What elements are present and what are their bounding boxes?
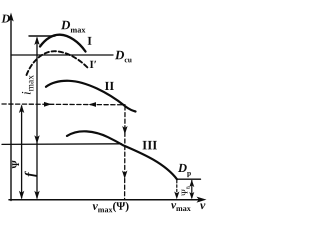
y-axis bbox=[10, 17, 12, 201]
dimension line B (i_max / f) bbox=[36, 38, 38, 198]
svg-text:III: III bbox=[142, 137, 157, 152]
x-axis bbox=[9, 199, 201, 201]
x-axis arrowhead bbox=[197, 197, 207, 203]
left arrow on dashed line bbox=[89, 102, 97, 107]
svg-text:v: v bbox=[200, 198, 206, 212]
dashed vertical line at v_max(psi) bbox=[124, 106, 126, 199]
double arrow psi_v bbox=[191, 181, 193, 198]
svg-text:I: I bbox=[87, 34, 92, 48]
curve I bbox=[40, 35, 86, 52]
y-axis arrowhead bbox=[8, 13, 13, 22]
svg-text:I′: I′ bbox=[90, 59, 97, 71]
curve III bbox=[67, 131, 177, 179]
D_cu horizontal line bbox=[11, 54, 113, 56]
cap line at D_max level bbox=[29, 35, 55, 37]
dashed horizontal line at curve II level bbox=[2, 103, 125, 106]
right arrow on dashed line bbox=[44, 102, 52, 107]
svg-text:D: D bbox=[1, 11, 11, 25]
svg-text:II: II bbox=[105, 79, 115, 93]
dimension line A (psi) bbox=[21, 106, 23, 198]
curve II bbox=[46, 81, 136, 112]
dashed vertical line at v_max bbox=[176, 181, 178, 198]
D_p cap line bbox=[177, 178, 201, 180]
curve I' (dashed) bbox=[27, 51, 88, 75]
long horizontal line at f level bbox=[2, 143, 122, 146]
svg-text:Ψ: Ψ bbox=[11, 159, 22, 168]
